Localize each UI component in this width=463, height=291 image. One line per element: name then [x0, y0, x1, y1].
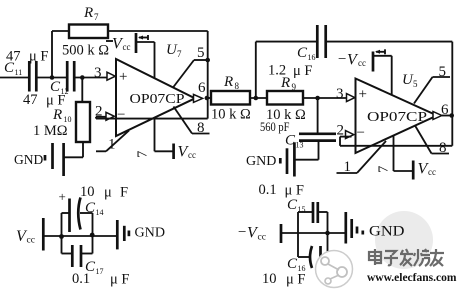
svg-text:7: 7 [177, 49, 182, 59]
svg-text:μ F: μ F [29, 49, 48, 65]
svg-text:GND: GND [369, 224, 405, 240]
svg-text:7: 7 [136, 151, 151, 158]
svg-text:−: − [357, 125, 365, 141]
svg-text:cc: cc [188, 150, 196, 160]
svg-text:10 k Ω: 10 k Ω [211, 107, 251, 123]
svg-text:−: − [238, 225, 246, 241]
svg-text:47: 47 [23, 92, 38, 108]
svg-text:7: 7 [377, 166, 392, 173]
svg-text:5: 5 [197, 45, 205, 61]
svg-text:5: 5 [439, 64, 447, 80]
svg-text:R: R [223, 74, 233, 90]
svg-text:+: + [359, 87, 367, 103]
svg-text:μ F: μ F [285, 183, 304, 199]
svg-text:R: R [83, 5, 93, 21]
svg-text:10: 10 [80, 184, 95, 200]
svg-text:7: 7 [94, 12, 99, 22]
svg-text:8: 8 [197, 120, 205, 136]
svg-text:μ F: μ F [293, 63, 312, 79]
svg-text:cc: cc [358, 58, 366, 68]
svg-text:C: C [287, 197, 298, 213]
svg-text:C: C [85, 200, 96, 216]
svg-text:13: 13 [296, 141, 304, 150]
svg-text:1: 1 [344, 159, 352, 175]
svg-text:μ F: μ F [110, 272, 129, 288]
svg-text:GND: GND [246, 154, 276, 169]
svg-text:14: 14 [96, 208, 104, 217]
svg-text:3: 3 [336, 86, 344, 102]
svg-text:+: + [119, 69, 127, 85]
svg-text:cc: cc [258, 233, 266, 243]
svg-text:0.1: 0.1 [259, 182, 277, 198]
svg-text:16: 16 [308, 53, 316, 62]
svg-text:C: C [287, 256, 298, 272]
svg-text:−: − [338, 52, 346, 68]
svg-text:0.1: 0.1 [72, 271, 90, 287]
svg-text:cc: cc [123, 42, 131, 52]
svg-text:μ: μ [104, 185, 112, 201]
svg-text:μ F: μ F [286, 272, 305, 288]
svg-text:OP07CP: OP07CP [130, 91, 185, 106]
svg-text:9: 9 [292, 82, 297, 92]
svg-text:6: 6 [441, 102, 449, 118]
svg-text:15: 15 [298, 205, 306, 214]
svg-text:GND: GND [14, 152, 43, 167]
svg-text:500 k Ω: 500 k Ω [62, 43, 109, 59]
svg-text:C: C [297, 45, 308, 61]
svg-text:10: 10 [262, 271, 277, 287]
svg-text:cc: cc [27, 236, 35, 246]
svg-text:F: F [120, 185, 128, 201]
svg-text:8: 8 [439, 140, 447, 156]
svg-text:6: 6 [198, 80, 206, 96]
svg-text:1 MΩ: 1 MΩ [33, 123, 68, 139]
svg-text:OP07CP: OP07CP [367, 109, 427, 124]
svg-text:cc: cc [428, 167, 436, 177]
svg-text:GND: GND [135, 225, 166, 240]
svg-text:11: 11 [15, 68, 23, 77]
svg-text:C: C [4, 60, 15, 76]
svg-text:+: + [59, 189, 66, 204]
svg-text:−: − [117, 107, 125, 123]
svg-text:3: 3 [94, 65, 102, 81]
svg-text:1.2: 1.2 [268, 63, 286, 79]
svg-text:1: 1 [108, 137, 116, 153]
svg-text:8: 8 [235, 81, 240, 91]
svg-text:5: 5 [413, 79, 418, 89]
svg-text:R: R [52, 107, 62, 123]
svg-text:17: 17 [96, 267, 104, 276]
svg-text:www.elecfans.com: www.elecfans.com [367, 272, 457, 284]
